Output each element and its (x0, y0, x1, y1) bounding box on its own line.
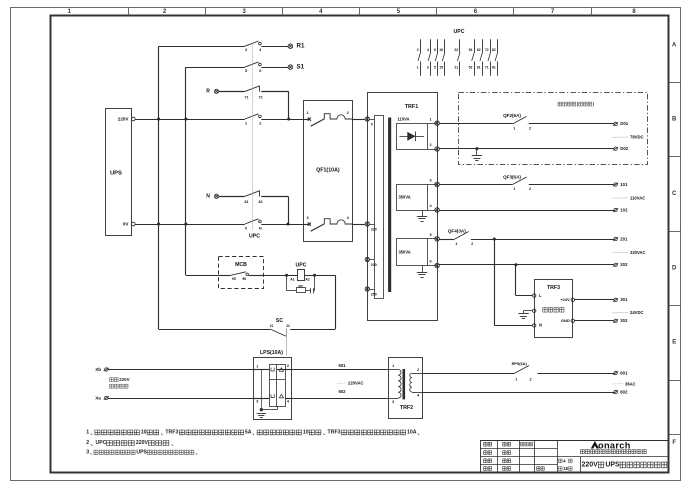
TRF1 core (388, 118, 391, 293)
svg-text:RC: RC (299, 284, 304, 288)
wire UPC coil to right bend (305, 275, 336, 277)
wire 0V from UPC contact to QF1 pin 3 (261, 224, 303, 226)
svg-text:220V: 220V (119, 377, 129, 382)
TRF1 tap 250 terminal (365, 287, 377, 297)
junction V2-220V (184, 117, 187, 120)
wire R1 branch (159, 46, 288, 48)
svg-text:2: 2 (529, 127, 531, 131)
wire TRF1 pin3 to QF3 (439, 184, 512, 186)
wire S1 branch (186, 67, 288, 69)
svg-text:UPS: UPS (605, 461, 620, 468)
wire vertical bus V1 (R1 branch down to SC) (158, 46, 160, 329)
svg-text:81: 81 (492, 66, 496, 70)
TRF3 pin +24V (560, 297, 574, 302)
MCB label (235, 262, 247, 268)
svg-text:110VA: 110VA (398, 117, 410, 122)
contactor UPC contact 71-72 (244, 86, 262, 100)
TRF1 secondary pin 1 (430, 117, 440, 125)
junction RC left (285, 274, 288, 277)
contactor UPC contact 81-82 (244, 191, 262, 204)
voltage label 36VAC (612, 381, 636, 386)
junction RC right (313, 274, 316, 277)
junction R-aux to 220V wire (287, 117, 290, 120)
svg-text:3: 3 (392, 400, 394, 404)
junction V1-0V (157, 222, 160, 225)
junction V2-0V (184, 222, 187, 225)
svg-text:220V: 220V (136, 440, 149, 446)
svg-text:21: 21 (270, 324, 274, 328)
wire TRF2 pin4 to terminal 602 (422, 392, 614, 394)
UPS box (106, 109, 132, 236)
note line 1 (86, 429, 419, 435)
contactor UPC contact 5-6 (244, 62, 261, 73)
svg-text:MCB: MCB (235, 262, 247, 268)
MCB auxiliary contact 95-96 (219, 272, 264, 281)
svg-text:TRF2: TRF2 (400, 405, 413, 411)
svg-text:250: 250 (371, 292, 377, 296)
switch SC (270, 318, 290, 356)
junction D02 ground (475, 147, 478, 150)
svg-text:R1: R1 (297, 43, 305, 50)
wire N aux (219, 196, 289, 224)
svg-text:230: 230 (371, 263, 377, 267)
svg-text:71: 71 (485, 66, 489, 70)
svg-text:4: 4 (427, 48, 429, 52)
svg-text:QF4(3A): QF4(3A) (448, 229, 466, 234)
svg-text:501: 501 (339, 363, 347, 368)
svg-text:18: 18 (563, 466, 568, 471)
svg-text:onarch: onarch (598, 440, 631, 450)
wire LPS pin4 to TRF2 pin3 (292, 389, 389, 398)
svg-text:3: 3 (86, 449, 89, 455)
terminal 201 (613, 236, 628, 241)
svg-text:22: 22 (286, 324, 290, 328)
svg-text:5: 5 (430, 233, 432, 237)
svg-text:220V: 220V (118, 117, 130, 122)
svg-text:Xb: Xb (95, 367, 101, 372)
TRF1 secondary pin 2 (430, 143, 440, 151)
TRF1 tap 0 terminal (365, 117, 373, 127)
wire SC row left segment (159, 329, 270, 331)
svg-text:10: 10 (141, 429, 147, 435)
svg-text:SC: SC (276, 318, 283, 324)
wire 220V from UPS to UPC main contact (135, 119, 244, 121)
top ruler zone ticks (129, 8, 592, 15)
relay coil UPC (290, 262, 310, 281)
terminal 302 (613, 318, 628, 323)
note line 2 (86, 440, 173, 446)
svg-text:36AC: 36AC (625, 381, 636, 386)
wire QF3 to terminal 101 (529, 184, 614, 186)
svg-text:95: 95 (232, 277, 236, 281)
TRF2 secondary winding (410, 368, 422, 397)
ground of 350VA winding (pins 5-6) (417, 266, 427, 278)
contactor UPC contact 3-4 (244, 41, 262, 52)
Monarch logo (591, 440, 631, 450)
terminal D01 (613, 121, 629, 126)
QF1 label (316, 168, 340, 174)
svg-text:2: 2 (347, 111, 349, 115)
svg-text:QF3(6A): QF3(6A) (503, 175, 521, 180)
note line 3 (86, 449, 197, 455)
top ruler zone numbers 1-8 (68, 9, 637, 15)
contactor UPC linkage line (252, 43, 254, 230)
svg-text:22: 22 (454, 48, 458, 52)
svg-text:QF2(6A): QF2(6A) (503, 113, 521, 118)
svg-text:3: 3 (256, 399, 258, 403)
svg-text:3: 3 (427, 66, 429, 70)
wire 201 branch down to TRF3 N pin (494, 239, 532, 326)
svg-text:6: 6 (259, 69, 261, 73)
svg-text:0V: 0V (123, 222, 130, 227)
svg-text:201: 201 (620, 236, 628, 241)
company name 苏州默纳克控制技术有限公司 (580, 450, 646, 454)
connector UPC pins (417, 39, 498, 76)
voltage label 110VAC (612, 196, 645, 201)
wire TRF3 +24V to terminal 301 (575, 299, 614, 301)
svg-text:2: 2 (259, 121, 261, 125)
wire Xb to LPS pin1 (108, 369, 254, 371)
svg-text:1: 1 (430, 117, 432, 121)
transformer TRF1 enclosure box (368, 93, 438, 321)
svg-text:UPS: UPS (136, 449, 147, 455)
svg-text:GND: GND (561, 318, 570, 323)
svg-text:81: 81 (245, 200, 249, 204)
right ruler zone letters A-F (672, 43, 677, 447)
terminal 202 (613, 262, 628, 267)
LPS ground (257, 370, 278, 418)
TRF3 pin L (533, 293, 543, 298)
svg-text:5A: 5A (245, 429, 252, 435)
TRF1 secondary pin 6 (430, 260, 440, 268)
svg-text:5: 5 (434, 66, 436, 70)
TRF1 tap 220 terminal (365, 222, 377, 232)
svg-text:2: 2 (417, 48, 419, 52)
wire TRF1 pin2 to terminal D02 (439, 148, 614, 150)
svg-text:2: 2 (529, 377, 531, 381)
svg-text:D: D (672, 266, 677, 272)
wire TRF1 pin1 to QF2 (439, 123, 512, 125)
svg-text:+24V: +24V (560, 297, 570, 302)
svg-text:D01: D01 (620, 121, 628, 126)
wire vertical bus V2 (S1 branch down to MCB) (185, 67, 187, 275)
TRF3 text 开关电源 (543, 308, 564, 313)
svg-text:3: 3 (245, 48, 247, 52)
terminal 101 (613, 182, 628, 187)
circuit breaker QF1 pole 1-2 (304, 111, 353, 126)
svg-text:N: N (259, 226, 262, 230)
svg-text:1: 1 (256, 365, 258, 369)
wire SC row right segment (290, 329, 335, 331)
ground in optional box (472, 149, 482, 161)
surge protector LPS box (254, 350, 292, 420)
svg-text:2: 2 (417, 368, 419, 372)
svg-text:N: N (539, 323, 542, 328)
svg-text:1: 1 (515, 377, 517, 381)
TRF1 tap 230 terminal (365, 257, 377, 267)
svg-text:21: 21 (454, 66, 458, 70)
wire MCB to UPC coil (264, 275, 298, 277)
wire TRF3 GND to terminal 302 (575, 320, 614, 322)
optional box label 可选部分(按需用) (558, 102, 595, 107)
svg-text:2: 2 (86, 440, 89, 446)
svg-text:350VA: 350VA (399, 250, 411, 255)
svg-text:TRF1: TRF1 (405, 104, 418, 110)
label 引自220V照明电源 (110, 377, 130, 388)
wire TRF2 pin2 to RP5 (422, 373, 515, 375)
contactor UPC label (249, 234, 260, 240)
wire V2 down to MCB (186, 275, 219, 277)
RC suppressor across coil (287, 275, 315, 293)
terminal Xb (95, 367, 109, 372)
wire TRF1 pin5 to QF4 (439, 239, 454, 241)
TRF1 secondary pin 4 (430, 204, 440, 212)
TRF1 secondary pin 5 (430, 233, 440, 241)
svg-text:QF1(10A): QF1(10A) (316, 168, 340, 174)
terminal D02 (613, 146, 629, 151)
contactor UPC main contact 1-2 (244, 114, 261, 126)
wire TRF1 pin4 to terminal 102 (439, 210, 614, 212)
TRF1 secondary pin 3 (430, 178, 440, 186)
wire RP5 to terminal 601 (538, 373, 614, 375)
svg-text:5: 5 (245, 69, 247, 73)
TRF3 pin GND (561, 318, 575, 323)
voltage label 24VDC (612, 310, 644, 315)
svg-text:82: 82 (492, 48, 496, 52)
svg-text:2: 2 (287, 364, 289, 368)
svg-text:101: 101 (620, 182, 628, 187)
svg-text:24VDC: 24VDC (630, 310, 644, 315)
svg-text:2: 2 (430, 143, 432, 147)
voltage label 220VAC at TRF2 (337, 381, 364, 386)
circuit breaker QF3 (503, 175, 531, 192)
svg-text:L: L (539, 293, 542, 298)
wire QF1 pin2 to TRF1 tap 0 (352, 119, 365, 121)
svg-text:53: 53 (469, 66, 473, 70)
svg-text:96: 96 (242, 277, 246, 281)
svg-text:D02: D02 (620, 146, 628, 151)
node R (206, 88, 218, 94)
terminal Xa (95, 395, 109, 400)
svg-text:UPC: UPC (454, 29, 465, 35)
TRF3 label (547, 285, 560, 291)
switch RP5(6A) (512, 361, 532, 381)
TRF1 primary winding (369, 116, 383, 299)
sheet count 共18页 (559, 466, 573, 471)
svg-text:62: 62 (477, 48, 481, 52)
svg-text:UPC: UPC (96, 440, 107, 446)
svg-text:UPC: UPC (249, 234, 260, 240)
sheet number 第4页 (559, 458, 573, 463)
svg-text:72: 72 (259, 95, 263, 99)
svg-text:1: 1 (392, 364, 394, 368)
svg-text:6: 6 (434, 48, 436, 52)
svg-text:1: 1 (513, 127, 515, 131)
svg-text:6: 6 (430, 260, 432, 264)
TRF2 core (403, 369, 406, 399)
drawing title 220V带UPS应急电源回路图 (582, 461, 667, 468)
TRF1 secondary winding 350VA box (pins 5-6) (397, 239, 438, 266)
svg-text:A: A (672, 43, 677, 49)
svg-text:LPS(10A): LPS(10A) (260, 350, 283, 356)
TRF2 primary winding (389, 364, 402, 404)
svg-text:1: 1 (417, 66, 419, 70)
node N (206, 193, 218, 199)
transformer TRF2 box (389, 358, 423, 419)
wire QF1 pin4 to TRF1 tap 220 (352, 224, 365, 226)
svg-text:A1: A1 (290, 278, 294, 282)
svg-text:82: 82 (259, 200, 263, 204)
svg-text:61: 61 (477, 66, 481, 70)
LPS internals (254, 364, 292, 407)
TRF3 PE pin and ground (518, 309, 536, 318)
svg-text:R: R (206, 88, 210, 94)
voltage label 220VAC (612, 250, 646, 255)
svg-text:601: 601 (620, 370, 628, 375)
svg-text:302: 302 (620, 318, 628, 323)
ground of 350VA winding (pins 3-4) (417, 210, 427, 222)
svg-text:B: B (672, 117, 677, 123)
wire 220V from UPC contact to QF1 pin 1 (261, 119, 303, 121)
junction N-aux to 0V wire (286, 222, 289, 225)
svg-text:Xa: Xa (95, 395, 101, 400)
title block row labels (484, 442, 545, 470)
junction V1-220V (157, 117, 160, 120)
svg-text:220V: 220V (582, 461, 599, 468)
svg-text:2: 2 (471, 242, 473, 246)
terminal 602 (613, 389, 628, 394)
svg-text:1: 1 (245, 121, 247, 125)
TRF1 secondary winding 110VA box (397, 117, 438, 150)
wire QF4 to terminal 201 (471, 239, 614, 241)
title block grid (480, 440, 668, 472)
svg-text:220VAC: 220VAC (630, 250, 646, 255)
svg-text:1: 1 (86, 429, 89, 435)
UPS 0V terminal (132, 222, 136, 226)
svg-text:54: 54 (469, 48, 473, 52)
svg-text:350VA: 350VA (399, 194, 411, 199)
svg-text:A2: A2 (305, 278, 309, 282)
wire Xa to LPS pin3 (108, 398, 254, 400)
diode in 110VA secondary (400, 132, 425, 142)
svg-text:102: 102 (620, 207, 628, 212)
svg-text:3: 3 (430, 178, 432, 182)
circuit breaker QF1 pole 3-4 (304, 216, 353, 231)
circuit breaker QF1 box (304, 101, 353, 242)
junction 202 branch to TRF3 L (514, 263, 517, 266)
junction 201 branch to TRF3 N (493, 237, 496, 240)
svg-text:10: 10 (303, 429, 309, 435)
svg-text:TRF3: TRF3 (165, 429, 178, 435)
svg-text:E: E (672, 340, 676, 346)
wire 0V from UPS to UPC neutral contact (135, 224, 244, 226)
svg-text:F: F (672, 440, 676, 446)
svg-text:71: 71 (245, 95, 249, 99)
terminal 301 (613, 297, 628, 302)
svg-text:RP5(6A): RP5(6A) (512, 361, 528, 366)
svg-text:S1: S1 (297, 63, 305, 70)
voltage label 78VDC (612, 135, 644, 140)
svg-text:2: 2 (529, 187, 531, 191)
svg-text:0: 0 (371, 123, 373, 127)
svg-text:110VAC: 110VAC (630, 196, 645, 201)
svg-text:C: C (672, 191, 677, 197)
svg-text:1: 1 (455, 242, 457, 246)
svg-text:TRF3: TRF3 (547, 285, 560, 291)
right ruler zone ticks (669, 83, 681, 435)
svg-text:16: 16 (439, 48, 443, 52)
svg-text:10A: 10A (407, 429, 417, 435)
svg-text:602: 602 (620, 389, 628, 394)
contactor UPC neutral contact 0-N (244, 219, 262, 231)
svg-text:1: 1 (306, 111, 308, 115)
wire coil branch down to SC level (335, 275, 337, 329)
circuit breaker QF2 (503, 113, 531, 131)
TRF1 secondary winding 350VA box (pins 3-4) (397, 185, 438, 211)
svg-text:202: 202 (620, 262, 628, 267)
svg-text:220VAC: 220VAC (348, 381, 364, 386)
svg-text:N: N (206, 193, 210, 199)
svg-text:220: 220 (371, 228, 377, 232)
svg-text:TRF3: TRF3 (328, 429, 341, 435)
wire 202 branch down to TRF3 L pin (516, 265, 533, 296)
svg-text:502: 502 (339, 389, 347, 394)
svg-text:72: 72 (485, 48, 489, 52)
UPS 220V terminal (132, 117, 136, 121)
TRF1 label (405, 104, 418, 110)
svg-text:78VDC: 78VDC (630, 135, 644, 140)
circuit breaker QF4 (448, 229, 473, 246)
wire LPS pin2 to TRF2 pin1 (292, 363, 389, 369)
terminal 102 (613, 207, 628, 212)
svg-text:301: 301 (620, 297, 628, 302)
svg-text:3: 3 (306, 216, 308, 220)
svg-text:0: 0 (245, 226, 247, 230)
MCB dashed box (219, 257, 264, 289)
svg-text:1: 1 (513, 187, 515, 191)
terminal 601 (613, 370, 628, 375)
svg-text:UPC: UPC (296, 262, 307, 268)
switching power supply TRF3 box (535, 280, 573, 338)
svg-text:UPS: UPS (110, 171, 122, 177)
lamp S1 (288, 63, 305, 70)
lamp R1 (288, 43, 305, 50)
wire TRF1 pin6 to terminal 202 (439, 264, 614, 266)
svg-text:15: 15 (439, 66, 443, 70)
optional section dashed box (可选部分) (459, 93, 648, 165)
wire QF2 to terminal D01 (529, 123, 614, 125)
connector UPC label (454, 29, 465, 35)
TRF3 pin N (533, 323, 543, 328)
wire R aux (219, 91, 289, 119)
